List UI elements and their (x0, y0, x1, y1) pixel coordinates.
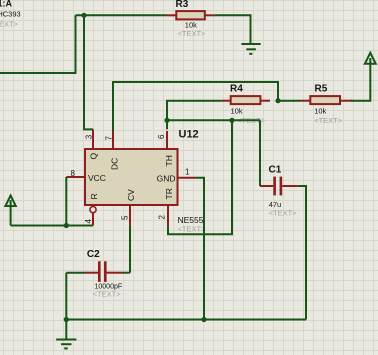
svg-text:4: 4 (84, 219, 93, 224)
resistor R4 body (231, 96, 261, 104)
resistor R5 body (310, 96, 340, 104)
timer U12 body (85, 149, 178, 205)
wire R4 junction to R5 (278, 100, 301, 102)
svg-text:<TEXT>: <TEXT> (314, 116, 343, 125)
svg-text:5: 5 (121, 215, 130, 220)
svg-text:1: 1 (185, 168, 190, 177)
svg-text:10k: 10k (185, 21, 197, 30)
svg-text:CV: CV (126, 189, 136, 201)
svg-text:<TEXT>: <TEXT> (0, 20, 19, 29)
junction node at top rail (81, 13, 86, 18)
U12 pin 5 stub (129, 206, 131, 225)
wire C1 left riser (259, 120, 261, 186)
svg-text:U1:A: U1:A (0, 0, 13, 9)
resistor R5 left lead (301, 100, 310, 102)
wire U12 pin 8 down to junction (65, 177, 67, 226)
capacitor C1 right plate (280, 177, 283, 196)
svg-text:74HC393: 74HC393 (0, 10, 21, 19)
wire R3 right to ground (215, 15, 251, 43)
capacitor C2 left plate (98, 261, 101, 282)
svg-text:R5: R5 (315, 84, 328, 95)
svg-text:<TEXT>: <TEXT> (178, 225, 207, 234)
junction node pin8/arrow/pin4 (64, 223, 69, 228)
resistor R3 left lead (167, 14, 177, 16)
svg-text:C1: C1 (269, 165, 282, 176)
wire C2 left to ground riser (66, 272, 84, 274)
junction node pin6/R4 (164, 118, 169, 123)
wire riser to U12 pin 3 (84, 15, 93, 129)
resistor R4 left lead (221, 100, 230, 102)
U12 pin 6 stub (166, 131, 168, 149)
svg-text:<TEXT>: <TEXT> (93, 290, 122, 299)
wire from node down to TR (pin 2) (168, 120, 232, 234)
svg-text:10k: 10k (314, 107, 326, 116)
svg-text:NE555: NE555 (178, 215, 204, 225)
capacitor C2 right plate (104, 261, 107, 282)
power arrow (left) (5, 196, 15, 207)
wire horizontal node row y=120 (167, 119, 260, 121)
capacitor C2 left lead (84, 272, 98, 274)
svg-text:10k: 10k (231, 107, 243, 116)
power arrow stem (left) (10, 200, 12, 226)
U12 pin 8 stub (66, 176, 85, 178)
U12 pin 4 stub (92, 213, 94, 226)
wire U12 pin 5 to C2 (129, 225, 131, 273)
wire U12 pin 7 riser and top rail to R4 junction (113, 82, 278, 131)
U12 pin 3 stub (92, 129, 94, 149)
svg-text:6: 6 (157, 134, 166, 139)
capacitor C1 left lead (260, 185, 273, 187)
svg-text:R3: R3 (176, 0, 189, 10)
svg-text:Q: Q (89, 153, 99, 160)
wire C1 right riser down (297, 186, 306, 320)
ground symbol near R3 (241, 44, 260, 54)
wire R4 left to pin 6 riser (167, 101, 221, 130)
svg-text:TR: TR (164, 188, 174, 199)
junction node bottom rail pin1 (201, 317, 206, 322)
U12 pin 2 stub (167, 205, 169, 226)
junction node bottom rail left (64, 317, 69, 322)
resistor R5 right lead (340, 100, 353, 102)
wire ground riser (65, 273, 67, 339)
capacitor C1 right lead (282, 185, 297, 187)
svg-text:<TEXT>: <TEXT> (269, 208, 298, 217)
svg-text:R: R (89, 193, 99, 199)
wire left arrow to pin 4 (11, 225, 93, 227)
svg-text:2: 2 (158, 215, 167, 220)
wire R5 right to power arrow (351, 58, 370, 101)
svg-text:<TEXT>: <TEXT> (178, 29, 207, 38)
wire U12 pin 1 to down riser (196, 178, 204, 320)
svg-text:VCC: VCC (88, 173, 106, 183)
svg-text:R4: R4 (230, 84, 243, 95)
wire top horizontal to R3 (76, 14, 167, 16)
wire bottom rail (66, 319, 306, 321)
junction node row y=120 (229, 118, 234, 123)
IC U1:A (74HC393, off-canvas left) labels (0, 0, 21, 29)
U12 pin 7 stub (112, 131, 114, 149)
ground symbol bottom (56, 340, 76, 349)
wire C2 right to pin5 riser (122, 272, 130, 274)
resistor R3 body (176, 11, 205, 19)
U12 pin 4 inversion bubble (90, 207, 96, 213)
junction node R4/R5 (275, 98, 280, 103)
capacitor C2 right lead (107, 272, 122, 274)
svg-text:C2: C2 (87, 249, 100, 260)
wire from left edge to riser (0, 15, 76, 73)
capacitor C1 left plate (273, 177, 276, 196)
svg-text:DC: DC (110, 158, 120, 170)
resistor R4 right lead (260, 100, 270, 102)
U12 pin 1 stub (178, 177, 197, 179)
power arrow (right, VCC) (365, 53, 376, 64)
svg-text:U12: U12 (179, 129, 199, 141)
svg-text:GND: GND (157, 174, 176, 184)
resistor R3 right lead (205, 14, 215, 16)
svg-text:TH: TH (164, 155, 174, 166)
